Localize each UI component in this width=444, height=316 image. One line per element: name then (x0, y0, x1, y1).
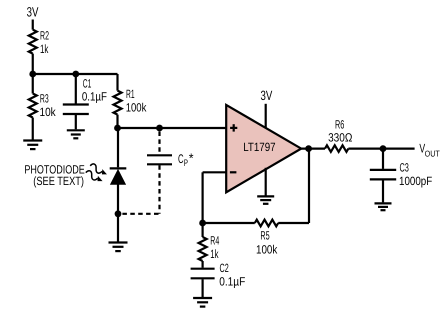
resistor R3 (29, 94, 37, 118)
svg-text:0.1µF: 0.1µF (82, 89, 107, 103)
node H junction (C3 tap) (380, 145, 387, 152)
ground (photodiode) (109, 243, 128, 252)
svg-text:R6: R6 (335, 118, 344, 132)
wire main rail to op-amp + input (118, 127, 228, 129)
node B junction (C1 top) (72, 71, 79, 78)
svg-text:*: * (189, 151, 194, 166)
svg-text:(SEE TEXT): (SEE TEXT) (33, 174, 84, 188)
wire R6 to VOUT (348, 148, 414, 150)
wire 3V to op-amp top (265, 104, 267, 129)
wire feedback riser up to output (308, 149, 310, 223)
svg-text:3V: 3V (261, 88, 273, 103)
wire R4 bottom lead (202, 261, 204, 268)
svg-text:3V: 3V (27, 4, 39, 19)
wire node F to R5 (203, 222, 255, 224)
node A junction (29, 71, 36, 78)
op-amp U1 LT1797 (226, 105, 301, 192)
wire (dashed) horizontal to node E (122, 213, 159, 215)
capacitor Cp (147, 155, 172, 164)
light arrows into photodiode (89, 163, 109, 177)
resistor R4 (199, 237, 207, 261)
svg-text:R3: R3 (40, 91, 49, 105)
svg-text:1k: 1k (40, 42, 49, 56)
wire photodiode anode lead (117, 184, 119, 214)
svg-text:P: P (184, 158, 188, 169)
svg-text:LT1797: LT1797 (243, 140, 276, 154)
svg-text:10k: 10k (40, 105, 57, 119)
svg-text:C3: C3 (400, 160, 410, 174)
wire (dashed) Cp bottom (158, 165, 160, 214)
node E junction (photodiode bottom) (115, 210, 122, 217)
wire C1 bottom lead (75, 115, 77, 129)
photodiode D1 cathode bar (110, 167, 127, 169)
svg-text:100k: 100k (126, 101, 147, 115)
wire C3 top lead (382, 149, 384, 169)
svg-text:R4: R4 (210, 233, 219, 247)
wire C1 top lead (75, 74, 77, 104)
wire R4 top lead (202, 223, 204, 237)
wire to photodiode ground (117, 214, 119, 242)
svg-text:0.1µF: 0.1µF (219, 274, 245, 288)
svg-text:R5: R5 (260, 229, 269, 243)
node C junction (R1 / photodiode / rail) (114, 125, 121, 132)
wire C3 bottom lead (382, 180, 384, 202)
resistor R1 (114, 91, 122, 115)
photodiode D1 triangle (111, 170, 126, 184)
wire op-amp output to R6 (301, 148, 325, 150)
ground (op-amp) (257, 196, 274, 203)
wire R1 bottom lead (116, 115, 118, 128)
pin - (230, 171, 237, 173)
wire R1 top lead (corner from top rail) (116, 74, 118, 91)
resistor R2 (29, 30, 37, 54)
resistor R6 (325, 145, 348, 152)
pin + (230, 124, 237, 131)
ground (C3) (375, 203, 392, 210)
wire - input down to node F (202, 172, 204, 223)
node F junction (199, 220, 206, 227)
resistor R5 (255, 220, 278, 227)
svg-text:R2: R2 (40, 29, 49, 43)
svg-text:C2: C2 (220, 261, 229, 275)
node D junction (Cp tap) (156, 125, 163, 132)
wire C2 bottom lead (202, 279, 204, 297)
capacitor C2 (191, 269, 215, 279)
wire top rail node A to R1 (33, 73, 118, 75)
wire (dashed) Cp top (158, 132, 160, 155)
capacitor C1 (63, 105, 89, 115)
ground (R3) (23, 141, 42, 150)
wire node A to R3 (32, 74, 34, 94)
node G junction (output) (305, 145, 312, 152)
wire 3V to R2 (32, 20, 34, 30)
svg-text:1k: 1k (210, 247, 219, 261)
capacitor C3 (370, 170, 396, 180)
wire R2 bottom to node A (32, 54, 34, 74)
wire - input stub (203, 171, 227, 173)
svg-text:OUT: OUT (425, 149, 440, 159)
wire R5 to feedback riser (278, 222, 309, 224)
svg-text:100k: 100k (256, 243, 278, 257)
svg-text:330Ω: 330Ω (328, 130, 352, 144)
wire op-amp bottom to ground (265, 168, 267, 196)
ground (C2) (193, 298, 212, 307)
svg-text:1000pF: 1000pF (399, 174, 432, 188)
wire photodiode cathode lead (117, 128, 119, 167)
wire R3 to ground (32, 118, 34, 140)
svg-text:R1: R1 (126, 87, 135, 101)
ground (C1) (67, 130, 85, 138)
